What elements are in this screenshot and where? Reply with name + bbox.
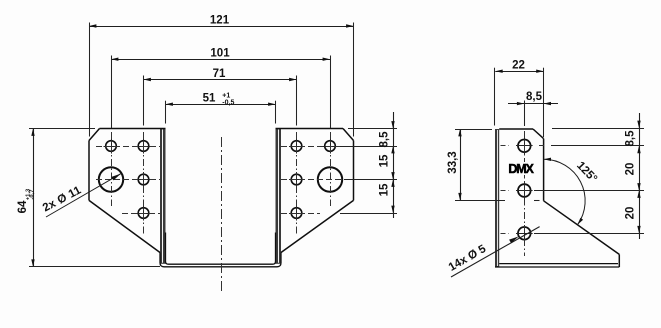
svg-text:-0,7: -0,7 — [30, 190, 36, 200]
svg-text:20: 20 — [625, 163, 637, 176]
svg-text:-0,5: -0,5 — [222, 99, 234, 106]
svg-text:71: 71 — [213, 68, 226, 80]
svg-text:101: 101 — [210, 48, 230, 60]
svg-text:8,5: 8,5 — [625, 130, 637, 147]
svg-text:20: 20 — [625, 207, 637, 220]
svg-text:8,5: 8,5 — [378, 131, 390, 148]
svg-text:64: 64 — [17, 200, 29, 213]
svg-text:DMX: DMX — [508, 162, 534, 176]
svg-text:33,3: 33,3 — [447, 151, 459, 173]
svg-text:15: 15 — [378, 183, 390, 196]
svg-text:22: 22 — [512, 60, 525, 72]
svg-text:51: 51 — [203, 93, 216, 105]
svg-text:8,5: 8,5 — [526, 91, 543, 103]
svg-text:121: 121 — [210, 15, 230, 27]
svg-text:15: 15 — [378, 154, 390, 167]
